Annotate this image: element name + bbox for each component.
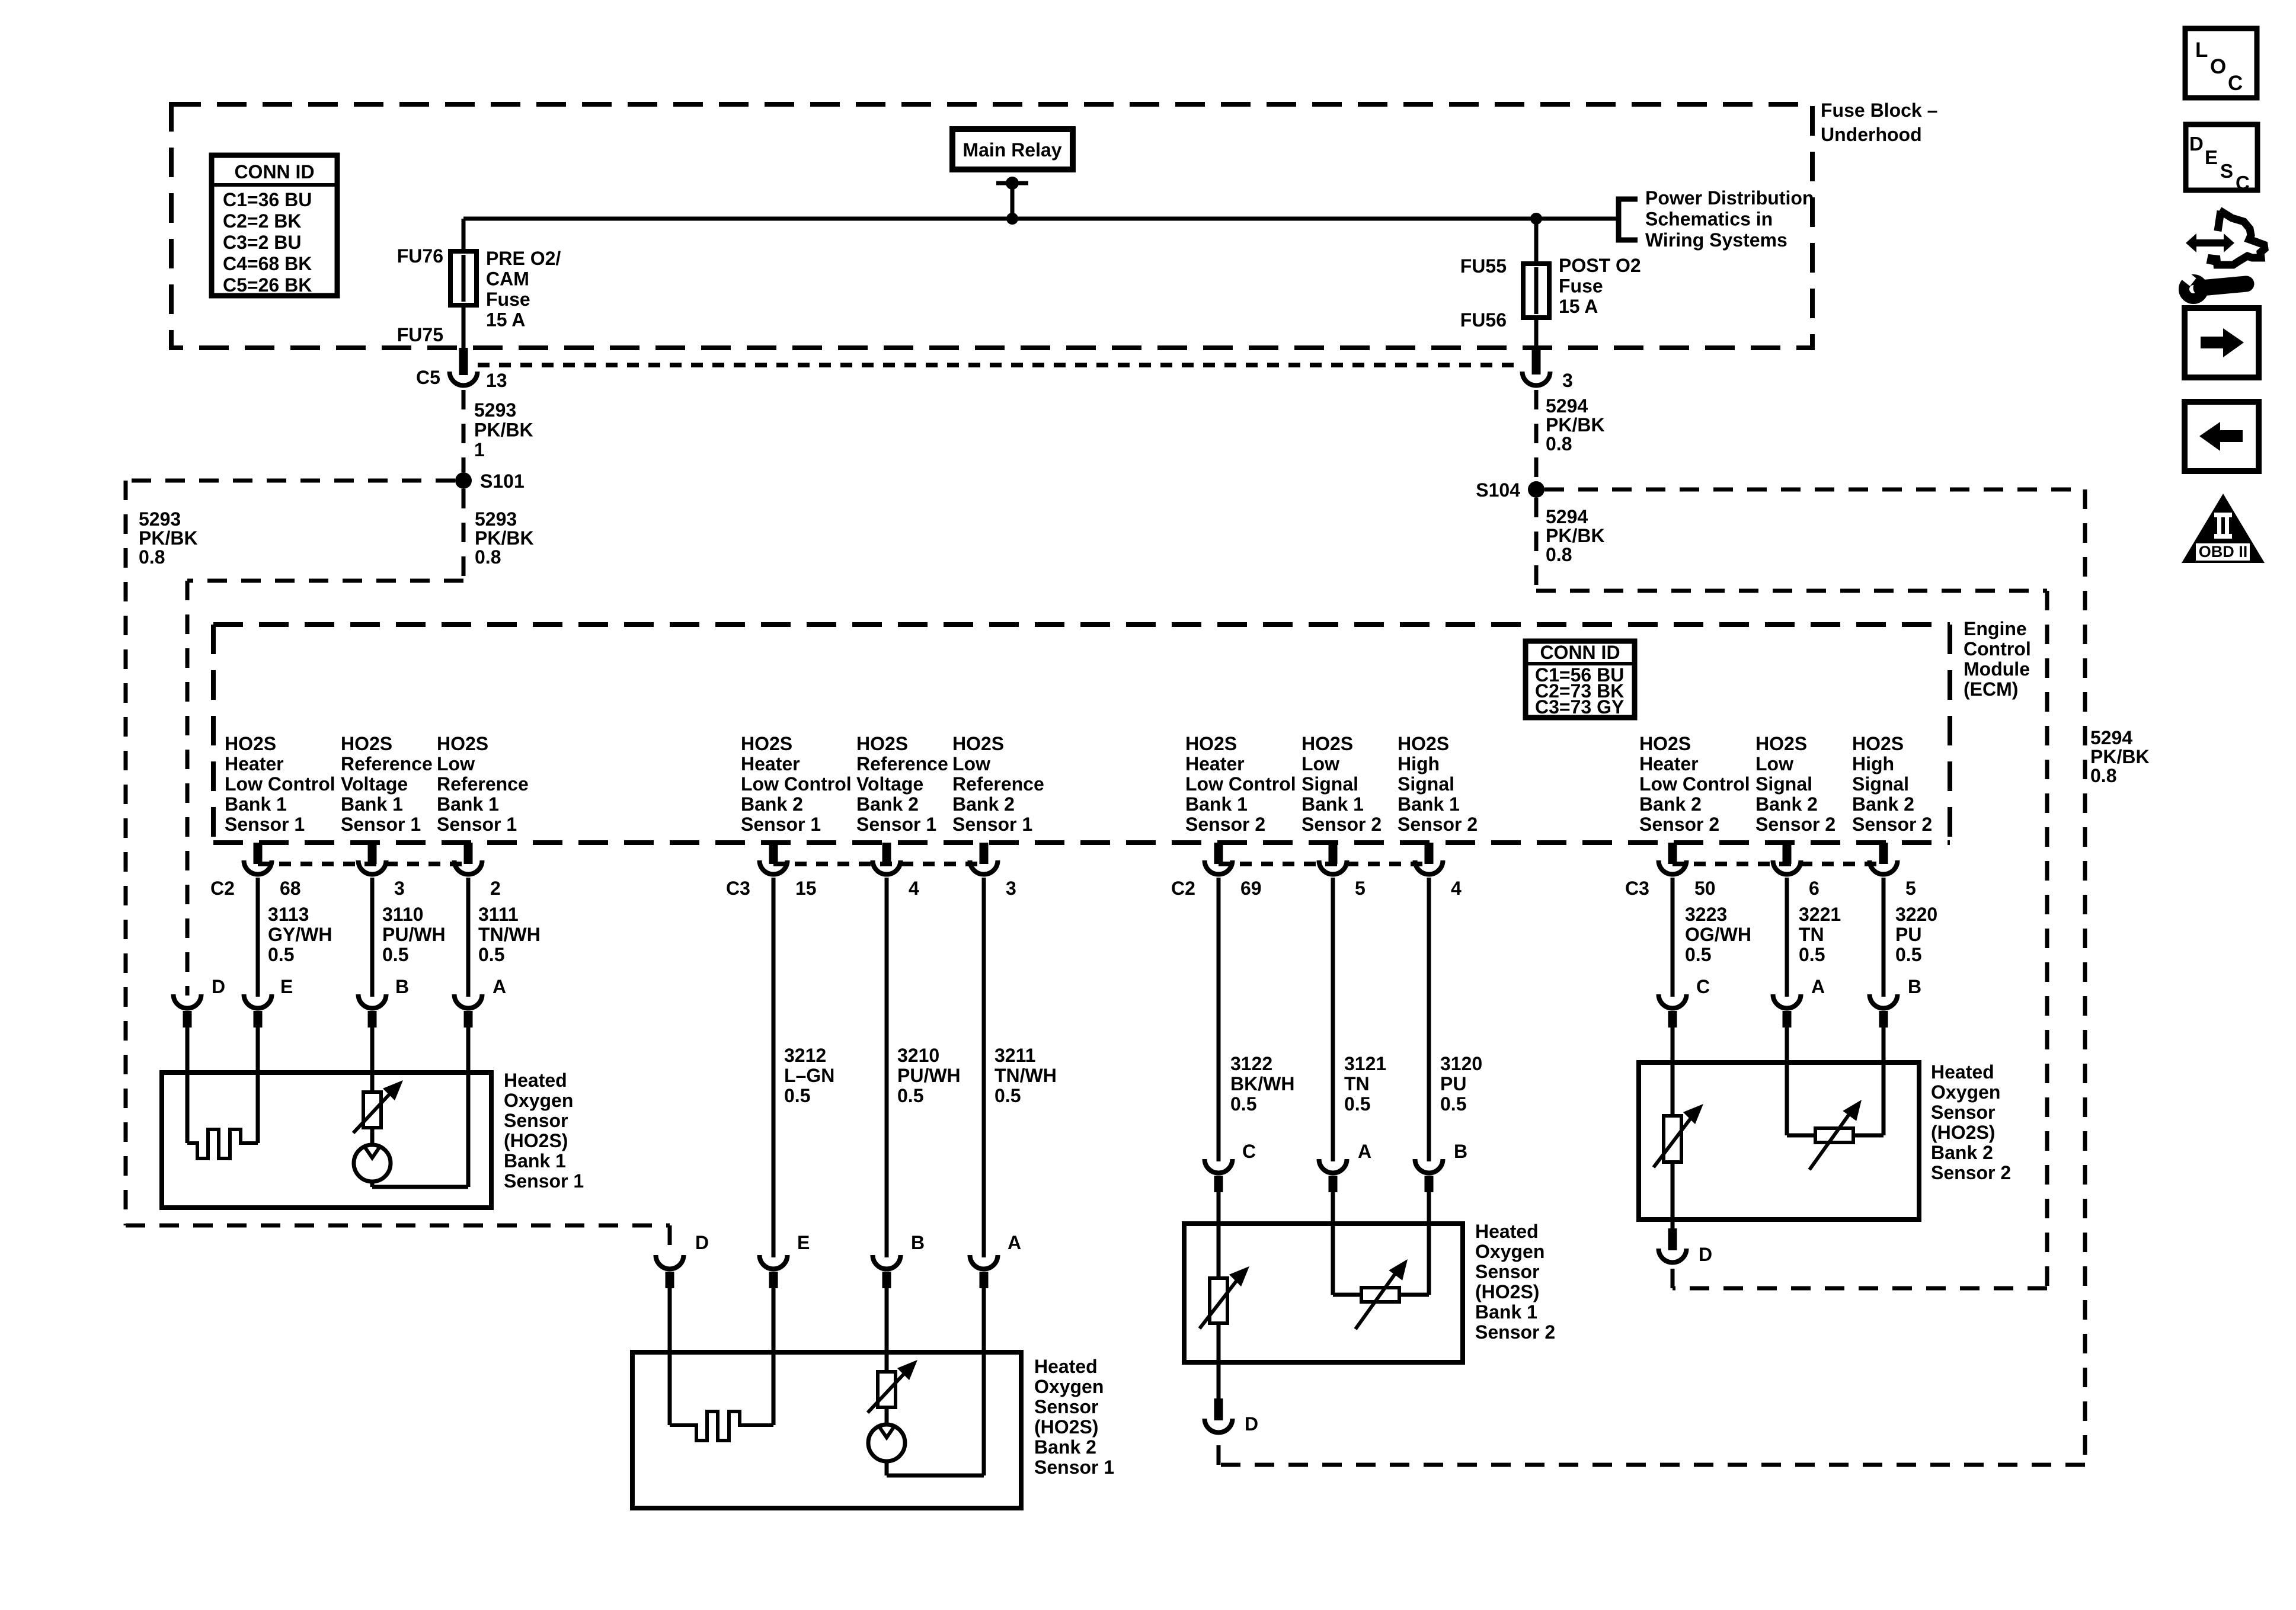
sensor connector terminal D xyxy=(656,1255,684,1269)
svg-text:C2: C2 xyxy=(1171,878,1195,899)
sensor connector terminal C xyxy=(1205,1159,1233,1173)
ECM pin 2 xyxy=(464,843,473,864)
svg-text:C1=36 BU: C1=36 BU xyxy=(223,189,312,210)
heated oxygen sensor B2S2 box xyxy=(1639,1062,1919,1219)
wire 3212 L-GN xyxy=(772,878,776,1257)
sensor connector terminal E xyxy=(244,994,272,1008)
icon DESC xyxy=(2186,124,2257,190)
svg-text:PU/WH: PU/WH xyxy=(382,924,446,945)
heater element B2S1 xyxy=(670,1411,773,1441)
svg-text:C4=68 BK: C4=68 BK xyxy=(223,253,312,274)
svg-text:B: B xyxy=(1908,976,1921,997)
wire terminal E to heater xyxy=(256,1028,260,1143)
wire 5294 outer branch up to B1S2 pin D xyxy=(1217,1439,1221,1465)
wire 5294 outer branch bottom xyxy=(1219,1463,2085,1467)
svg-text:3210: 3210 xyxy=(897,1045,939,1066)
sensor connector terminal D xyxy=(174,994,202,1008)
wire 5293 below C5 xyxy=(462,390,466,472)
svg-text:FU55: FU55 xyxy=(1460,255,1507,277)
svg-text:0.5: 0.5 xyxy=(478,944,504,965)
svg-text:0.5: 0.5 xyxy=(1799,944,1825,965)
wire fuse FU56 to connector pin 3 xyxy=(1534,318,1539,348)
power distribution bracket xyxy=(1619,199,1638,240)
svg-text:O: O xyxy=(2210,55,2226,78)
svg-text:5293: 5293 xyxy=(474,399,516,421)
connector C5 pin 13 xyxy=(459,348,468,375)
svg-text:HO2S: HO2S xyxy=(1302,733,1353,754)
svg-text:0.5: 0.5 xyxy=(994,1085,1021,1106)
wire 3111 TN/WH xyxy=(466,878,471,997)
svg-text:(HO2S): (HO2S) xyxy=(1034,1416,1098,1438)
svg-text:Signal: Signal xyxy=(1852,773,1909,795)
svg-text:Bank 1: Bank 1 xyxy=(341,793,403,815)
svg-text:4: 4 xyxy=(909,878,919,899)
svg-text:GY/WH: GY/WH xyxy=(268,924,332,945)
svg-text:6: 6 xyxy=(1809,878,1819,899)
svg-text:HO2S: HO2S xyxy=(225,733,276,754)
svg-text:0.8: 0.8 xyxy=(139,546,165,568)
svg-text:PK/BK: PK/BK xyxy=(475,527,534,549)
wire return loop B1S1 xyxy=(372,1185,468,1189)
connector line dotted group4 xyxy=(1673,862,1884,866)
svg-text:High: High xyxy=(1398,753,1440,774)
svg-text:HO2S: HO2S xyxy=(856,733,908,754)
svg-text:PK/BK: PK/BK xyxy=(2090,746,2150,767)
wire heater resistor to terminal D B1S2 xyxy=(1217,1323,1221,1398)
svg-text:Heater: Heater xyxy=(741,753,800,774)
wire 3120 PU xyxy=(1427,878,1431,1161)
wire terminal A to cell return B2S1 xyxy=(982,1288,986,1475)
svg-text:3220: 3220 xyxy=(1895,904,1937,925)
svg-text:Reference: Reference xyxy=(856,753,948,774)
svg-text:0.8: 0.8 xyxy=(475,546,501,568)
svg-text:S104: S104 xyxy=(1476,479,1520,501)
wire 5293 left branch bottom horizontal xyxy=(126,1224,670,1228)
ECM pin 69 xyxy=(1214,843,1223,864)
variable resistor B2S1 xyxy=(878,1372,896,1407)
svg-text:3212: 3212 xyxy=(784,1045,826,1066)
wire terminal A to loop B1S2 xyxy=(1331,1192,1335,1295)
svg-text:CONN ID: CONN ID xyxy=(234,161,314,183)
sensor connector terminal D B1S2 xyxy=(1214,1398,1223,1420)
wire terminal A to loop B2S2 xyxy=(1785,1028,1789,1135)
sensor connector terminal B xyxy=(1870,994,1898,1008)
svg-text:Low: Low xyxy=(952,753,990,774)
ECM pin 4 xyxy=(882,843,891,864)
wire fuse FU75 to connector C5 xyxy=(462,305,466,348)
sensor connector terminal A xyxy=(454,994,482,1008)
svg-text:5293: 5293 xyxy=(139,508,181,530)
svg-text:Heater: Heater xyxy=(225,753,284,774)
svg-text:Sensor 2: Sensor 2 xyxy=(1852,814,1932,835)
wire 3110 PU/WH xyxy=(370,878,375,997)
wire 5294 outer branch to right xyxy=(1544,488,2085,492)
splice S101 xyxy=(455,472,472,489)
svg-text:Low Control: Low Control xyxy=(225,773,335,795)
icon OBD II xyxy=(2182,494,2265,563)
svg-text:TN: TN xyxy=(1799,924,1824,945)
svg-text:Voltage: Voltage xyxy=(341,773,408,795)
wire 5293 to HO2S B1S1 pin D xyxy=(186,581,190,996)
svg-text:PU: PU xyxy=(1895,924,1921,945)
sensor connector terminal B xyxy=(873,1255,901,1269)
svg-text:C: C xyxy=(2228,72,2243,95)
svg-text:Sensor 2: Sensor 2 xyxy=(1185,814,1265,835)
svg-text:PK/BK: PK/BK xyxy=(474,420,533,441)
svg-text:C3: C3 xyxy=(1625,878,1649,899)
wire feed to fuse FU55 xyxy=(1534,219,1539,264)
variable resistor B1S2 (signal) xyxy=(1361,1288,1399,1302)
svg-text:D: D xyxy=(2189,133,2204,155)
svg-text:(HO2S): (HO2S) xyxy=(1475,1281,1539,1302)
wire return loop B2S1 xyxy=(887,1474,984,1478)
svg-text:4: 4 xyxy=(1451,878,1462,899)
main relay output terminal xyxy=(996,181,1028,185)
wire 3113 GY/WH xyxy=(256,878,260,997)
svg-text:Signal: Signal xyxy=(1398,773,1454,795)
svg-text:Heater: Heater xyxy=(1185,753,1245,774)
wire terminal B to resistor B2S1 xyxy=(885,1288,889,1372)
svg-text:Module: Module xyxy=(1964,658,2030,680)
svg-text:Wiring Systems: Wiring Systems xyxy=(1645,229,1787,251)
svg-text:OBD II: OBD II xyxy=(2199,543,2248,561)
svg-text:OG/WH: OG/WH xyxy=(1685,924,1751,945)
svg-text:PU/WH: PU/WH xyxy=(897,1065,961,1086)
svg-text:Reference: Reference xyxy=(437,773,529,795)
wire 5294 inner branch up to B2S2 pin D xyxy=(1671,1268,1675,1288)
svg-text:Sensor 1: Sensor 1 xyxy=(741,814,821,835)
wire 5293 left branch horizontal xyxy=(126,479,455,483)
svg-text:HO2S: HO2S xyxy=(437,733,488,754)
svg-text:3111: 3111 xyxy=(478,904,519,925)
svg-text:Bank 2: Bank 2 xyxy=(1852,793,1914,815)
svg-text:Heated: Heated xyxy=(1034,1356,1098,1377)
svg-text:L: L xyxy=(2195,39,2208,62)
svg-text:HO2S: HO2S xyxy=(952,733,1004,754)
wire 5294 below pin 3 xyxy=(1534,390,1539,481)
svg-text:5293: 5293 xyxy=(475,508,517,530)
wire terminal B to sense resistor xyxy=(370,1028,375,1092)
svg-text:Bank 2: Bank 2 xyxy=(952,793,1015,815)
svg-text:Bank 2: Bank 2 xyxy=(1755,793,1818,815)
svg-text:Sensor 2: Sensor 2 xyxy=(1931,1162,2011,1183)
wire terminal D to heater B2S1 xyxy=(668,1288,672,1425)
svg-text:3: 3 xyxy=(1562,370,1573,391)
svg-text:Reference: Reference xyxy=(952,773,1044,795)
svg-text:A: A xyxy=(493,976,506,997)
svg-text:Sensor 1: Sensor 1 xyxy=(1034,1457,1114,1478)
wire terminal B to loop B2S2 xyxy=(1882,1028,1886,1135)
svg-text:HO2S: HO2S xyxy=(1185,733,1237,754)
ECM pin 5 xyxy=(1329,843,1338,864)
svg-text:High: High xyxy=(1852,753,1894,774)
sensor connector terminal A xyxy=(1773,994,1801,1008)
group HO2S Bank 2 Sensor 1 xyxy=(0,0,1,1)
svg-text:C3=73 GY: C3=73 GY xyxy=(1535,696,1624,718)
zirconia cell B2S1 xyxy=(868,1425,905,1461)
svg-text:A: A xyxy=(1008,1232,1021,1253)
svg-text:C3=2 BU: C3=2 BU xyxy=(223,232,302,253)
ECM pin 50 xyxy=(1668,843,1677,864)
svg-text:C: C xyxy=(1696,976,1710,997)
ECM pin 6 xyxy=(1783,843,1792,864)
svg-text:D: D xyxy=(1699,1244,1712,1265)
svg-text:HO2S: HO2S xyxy=(1852,733,1904,754)
svg-text:0.8: 0.8 xyxy=(1546,433,1572,454)
svg-text:3121: 3121 xyxy=(1344,1053,1386,1074)
engine control module enclosure xyxy=(213,622,1950,627)
svg-text:0.5: 0.5 xyxy=(1895,944,1921,965)
svg-text:Low: Low xyxy=(1302,753,1339,774)
svg-text:Bank 1: Bank 1 xyxy=(1475,1301,1537,1323)
svg-text:1: 1 xyxy=(474,439,485,460)
wire 5293 to B2S1 terminal D xyxy=(668,1225,672,1256)
svg-text:A: A xyxy=(1358,1141,1371,1162)
svg-text:Sensor 2: Sensor 2 xyxy=(1302,814,1382,835)
svg-text:0.5: 0.5 xyxy=(1440,1093,1466,1115)
main relay xyxy=(952,129,1073,169)
svg-text:0.5: 0.5 xyxy=(1344,1093,1370,1115)
svg-text:TN: TN xyxy=(1344,1073,1370,1094)
wire 3121 TN xyxy=(1331,878,1335,1161)
svg-text:B: B xyxy=(395,976,409,997)
connector ID table - fuse block xyxy=(212,155,337,296)
svg-text:Bank 1: Bank 1 xyxy=(1398,793,1460,815)
svg-text:Sensor 1: Sensor 1 xyxy=(341,814,421,835)
ECM pin 3 xyxy=(980,843,989,864)
variable resistor B1S1 xyxy=(363,1092,381,1128)
svg-text:C: C xyxy=(1242,1141,1256,1162)
svg-text:Sensor: Sensor xyxy=(1475,1261,1539,1282)
svg-text:5294: 5294 xyxy=(2090,727,2132,748)
svg-text:A: A xyxy=(1811,976,1825,997)
svg-text:TN/WH: TN/WH xyxy=(478,924,541,945)
icon back arrow xyxy=(2185,402,2259,471)
svg-text:FU76: FU76 xyxy=(397,245,443,267)
ECM pin 5 xyxy=(1879,843,1888,864)
svg-text:5294: 5294 xyxy=(1546,506,1588,527)
svg-text:Engine: Engine xyxy=(1964,618,2027,639)
wire heater resistor to terminal D B2S2 xyxy=(1671,1162,1675,1228)
svg-text:Low Control: Low Control xyxy=(741,773,852,795)
svg-text:E: E xyxy=(797,1232,810,1253)
sensor connector terminal E xyxy=(760,1255,788,1269)
svg-text:FU56: FU56 xyxy=(1460,309,1507,331)
heated oxygen sensor B2S1 box xyxy=(632,1352,1021,1508)
svg-text:D: D xyxy=(212,976,225,997)
svg-text:3113: 3113 xyxy=(268,904,309,925)
svg-text:15 A: 15 A xyxy=(1559,296,1598,317)
icon LOC xyxy=(2185,28,2257,98)
svg-text:HO2S: HO2S xyxy=(341,733,392,754)
svg-text:Bank 2: Bank 2 xyxy=(741,793,803,815)
connector line dotted group3 xyxy=(1219,862,1429,866)
fuse block - underhood enclosure xyxy=(171,104,1812,348)
wire resistor to cell xyxy=(370,1128,375,1145)
svg-text:Sensor 2: Sensor 2 xyxy=(1755,814,1835,835)
svg-text:Fuse: Fuse xyxy=(486,289,530,310)
wire terminal C to resistor B1S2 xyxy=(1217,1192,1221,1278)
wire 5293 left branch vertical xyxy=(124,481,128,1225)
svg-text:Low: Low xyxy=(437,753,475,774)
wire 3220 PU xyxy=(1882,878,1886,997)
group HO2S Bank 2 Sensor 2 xyxy=(0,0,1,1)
svg-text:Sensor 1: Sensor 1 xyxy=(856,814,936,835)
svg-text:Schematics in: Schematics in xyxy=(1645,209,1773,230)
wire 5294 inner branch down right xyxy=(2045,591,2049,1288)
svg-text:C2=2 BK: C2=2 BK xyxy=(223,210,302,232)
wire feed to fuse FU76 xyxy=(462,219,466,251)
svg-text:PU: PU xyxy=(1440,1073,1466,1094)
svg-text:POST O2: POST O2 xyxy=(1559,255,1641,276)
svg-text:3223: 3223 xyxy=(1685,904,1727,925)
wire relay to feed bus xyxy=(1011,183,1015,219)
svg-text:Bank 2: Bank 2 xyxy=(1639,793,1702,815)
sensor connector terminal A xyxy=(1319,1159,1347,1173)
svg-text:Sensor: Sensor xyxy=(1034,1396,1098,1417)
ECM pin 3 xyxy=(368,843,377,864)
svg-text:PRE O2/: PRE O2/ xyxy=(486,248,561,269)
sensor connector terminal A xyxy=(970,1255,998,1269)
svg-text:Heated: Heated xyxy=(1475,1221,1539,1242)
svg-text:3: 3 xyxy=(394,878,405,899)
svg-text:Bank 2: Bank 2 xyxy=(856,793,919,815)
svg-text:Bank 2: Bank 2 xyxy=(1034,1436,1096,1458)
icon forward arrow xyxy=(2185,308,2259,377)
svg-text:L–GN: L–GN xyxy=(784,1065,834,1086)
svg-text:15: 15 xyxy=(795,878,817,899)
svg-text:5294: 5294 xyxy=(1546,395,1588,417)
wire terminal E to heater B2S1 xyxy=(772,1288,776,1425)
svg-text:Bank 1: Bank 1 xyxy=(1302,793,1364,815)
svg-text:13: 13 xyxy=(486,370,507,391)
connector pin 3 right xyxy=(1532,348,1541,375)
svg-text:D: D xyxy=(695,1232,709,1253)
svg-text:3221: 3221 xyxy=(1799,904,1841,925)
svg-text:Sensor 1: Sensor 1 xyxy=(437,814,517,835)
icon vehicle with arrow and wrench xyxy=(2210,210,2265,265)
svg-text:Bank 2: Bank 2 xyxy=(1931,1142,1993,1163)
wire 5294 inner branch down xyxy=(1534,498,1539,591)
splice S104 xyxy=(1528,481,1544,498)
svg-text:Sensor 2: Sensor 2 xyxy=(1475,1321,1555,1343)
variable resistor B1S2 (heater) xyxy=(1210,1278,1227,1323)
svg-text:15 A: 15 A xyxy=(486,309,525,331)
junction at POST O2 fuse xyxy=(1530,213,1542,225)
svg-text:Heated: Heated xyxy=(504,1070,567,1091)
svg-text:Underhood: Underhood xyxy=(1821,124,1922,145)
svg-text:C2: C2 xyxy=(210,878,235,899)
svg-text:B: B xyxy=(911,1232,925,1253)
svg-text:PK/BK: PK/BK xyxy=(1546,525,1605,546)
wire terminal C to resistor B2S2 xyxy=(1671,1028,1675,1116)
svg-text:50: 50 xyxy=(1694,878,1716,899)
svg-text:Oxygen: Oxygen xyxy=(1475,1241,1544,1262)
wire 5293 center branch horizontal xyxy=(187,579,463,583)
wire resistor to cell B2S1 xyxy=(885,1407,889,1425)
connector line dotted group1 xyxy=(258,862,468,866)
svg-text:S101: S101 xyxy=(480,470,525,492)
wire 3210 PU/WH xyxy=(885,878,889,1257)
svg-text:68: 68 xyxy=(280,878,301,899)
svg-text:C3: C3 xyxy=(726,878,750,899)
svg-text:E: E xyxy=(2205,146,2218,168)
svg-text:Bank 1: Bank 1 xyxy=(1185,793,1248,815)
svg-text:0.5: 0.5 xyxy=(897,1085,923,1106)
zirconia cell B1S1 xyxy=(354,1145,391,1182)
connector ID table - ECM xyxy=(1526,641,1635,718)
connector line dotted group2 xyxy=(773,862,984,866)
wire 5294 inner branch horizontal xyxy=(1536,589,2047,593)
wire 5293 center branch down xyxy=(462,489,466,581)
wire B+ feed bus xyxy=(463,217,1619,221)
svg-text:3110: 3110 xyxy=(382,904,423,925)
svg-text:TN/WH: TN/WH xyxy=(994,1065,1057,1086)
svg-text:0.5: 0.5 xyxy=(1230,1093,1256,1115)
svg-text:69: 69 xyxy=(1240,878,1262,899)
wire 5294 inner branch bottom xyxy=(1673,1286,2047,1291)
fuse FU55/FU56 POST O2 15A xyxy=(1523,264,1549,318)
svg-text:Heater: Heater xyxy=(1639,753,1699,774)
wire cell to return loop xyxy=(370,1182,375,1187)
svg-text:5: 5 xyxy=(1905,878,1916,899)
svg-text:HO2S: HO2S xyxy=(1755,733,1807,754)
svg-text:(HO2S): (HO2S) xyxy=(504,1130,568,1151)
svg-text:0.5: 0.5 xyxy=(382,944,408,965)
wire 3122 BK/WH xyxy=(1217,878,1221,1161)
svg-text:Bank 1: Bank 1 xyxy=(225,793,287,815)
svg-text:3122: 3122 xyxy=(1230,1053,1272,1074)
ECM pin 15 xyxy=(769,843,778,864)
svg-text:Bank 1: Bank 1 xyxy=(437,793,499,815)
svg-text:Voltage: Voltage xyxy=(856,773,923,795)
svg-text:CAM: CAM xyxy=(486,268,529,290)
svg-text:2: 2 xyxy=(490,878,501,899)
wire 3211 TN/WH xyxy=(982,878,986,1257)
svg-text:Oxygen: Oxygen xyxy=(1931,1081,2000,1103)
svg-text:Sensor 1: Sensor 1 xyxy=(225,814,305,835)
svg-text:D: D xyxy=(1245,1413,1258,1435)
svg-text:5: 5 xyxy=(1355,878,1366,899)
wire cell to return loop B2S1 xyxy=(885,1461,889,1475)
svg-text:Signal: Signal xyxy=(1302,773,1358,795)
svg-text:0.8: 0.8 xyxy=(1546,544,1572,565)
heated oxygen sensor B1S1 box xyxy=(162,1073,491,1208)
svg-text:Sensor 1: Sensor 1 xyxy=(952,814,1032,835)
ECM pin 68 xyxy=(254,843,263,864)
svg-text:0.5: 0.5 xyxy=(784,1085,810,1106)
svg-text:Oxygen: Oxygen xyxy=(504,1090,573,1111)
svg-text:Reference: Reference xyxy=(341,753,433,774)
svg-text:HO2S: HO2S xyxy=(1639,733,1691,754)
signal loop B2S2 xyxy=(1787,1134,1815,1138)
wire 3221 TN xyxy=(1785,878,1789,997)
svg-text:Bank 1: Bank 1 xyxy=(504,1150,566,1172)
svg-text:0.5: 0.5 xyxy=(1685,944,1711,965)
svg-text:Oxygen: Oxygen xyxy=(1034,1376,1104,1397)
variable resistor B2S2 (signal) xyxy=(1815,1128,1853,1142)
svg-text:Control: Control xyxy=(1964,638,2031,660)
wire terminal A to cell return xyxy=(466,1028,471,1187)
ECM pin 4 xyxy=(1425,843,1434,864)
svg-text:Sensor 2: Sensor 2 xyxy=(1639,814,1719,835)
svg-text:Heated: Heated xyxy=(1931,1061,1994,1083)
heated oxygen sensor B1S2 box xyxy=(1184,1224,1463,1362)
wire terminal B to loop B1S2 xyxy=(1427,1192,1431,1295)
variable resistor B2S2 (heater) xyxy=(1664,1116,1681,1162)
svg-text:BK/WH: BK/WH xyxy=(1230,1073,1294,1094)
svg-text:C5=26 BK: C5=26 BK xyxy=(223,274,312,296)
